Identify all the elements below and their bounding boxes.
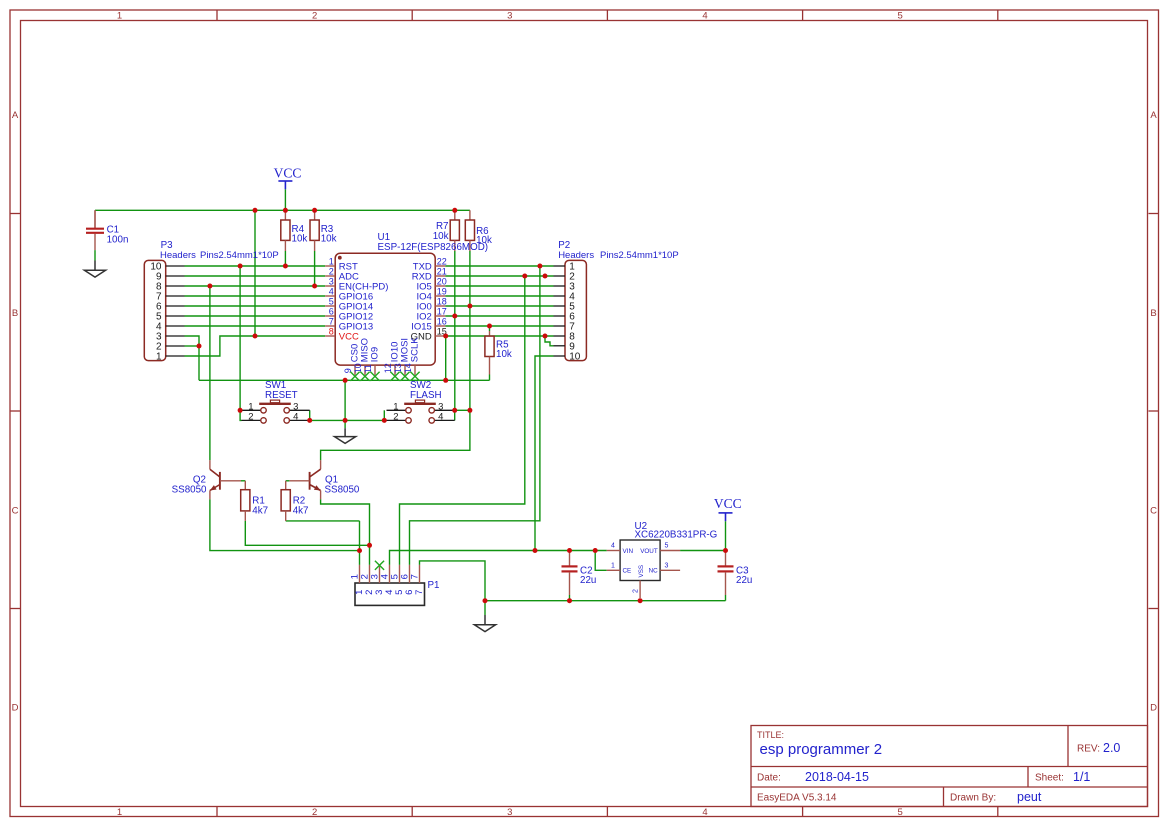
svg-text:17: 17 — [437, 307, 447, 317]
svg-text:B: B — [12, 308, 18, 319]
svg-text:10: 10 — [569, 351, 581, 362]
wire P3 pin3 segment — [185, 336, 200, 380]
svg-text:NC: NC — [649, 568, 659, 575]
wire P3 pin lead 9 — [166, 275, 185, 277]
capacitor C1 — [86, 210, 128, 250]
svg-text:4: 4 — [329, 287, 334, 297]
junction dots — [197, 208, 729, 603]
wire P2 pin lead 5 — [554, 305, 566, 307]
title block — [751, 726, 1148, 807]
wire U1 right row y=336 — [445, 335, 553, 337]
svg-text:C: C — [12, 506, 19, 517]
wire R2 bottom to P1 pin1 — [286, 520, 360, 522]
svg-text:100n: 100n — [107, 234, 129, 245]
svg-text:1: 1 — [117, 807, 122, 818]
svg-text:5: 5 — [329, 297, 334, 307]
svg-text:VSS: VSS — [638, 565, 645, 578]
svg-text:10k: 10k — [292, 234, 308, 245]
svg-text:ESP-12F(ESP8266MOD): ESP-12F(ESP8266MOD) — [378, 242, 489, 253]
VCC flag left — [274, 165, 302, 189]
svg-text:5: 5 — [898, 807, 903, 818]
wire base Q1 — [286, 480, 290, 482]
wire P3 pin lead 2 — [166, 345, 185, 347]
resistor R7 — [433, 210, 460, 251]
wire U1 right row y=286 — [445, 285, 553, 287]
wire P3 pin lead 7 — [166, 295, 185, 297]
wire P3 pin lead 4 — [166, 325, 185, 327]
wire rail to U1 VCC pin (vertical x=255) — [254, 210, 256, 336]
svg-text:6: 6 — [329, 307, 334, 317]
svg-text:C: C — [1150, 506, 1157, 517]
wire VCC stem left — [284, 189, 286, 210]
svg-text:SS8050: SS8050 — [325, 485, 360, 496]
U1 pin 19 — [435, 295, 445, 297]
wire Q1 emitter to P1 pin2 — [321, 499, 370, 565]
U1 pin 15 — [435, 335, 445, 337]
svg-text:2: 2 — [312, 807, 317, 818]
wire R7 to IO2 to SW2 — [454, 251, 456, 410]
svg-text:VOUT: VOUT — [640, 548, 658, 555]
wire R1 bottom to P1 pin2 — [245, 521, 369, 545]
wire P2 pin lead 2 — [554, 275, 566, 277]
wire P3 row y=316 — [185, 315, 326, 317]
wire P3 row y=266 — [185, 265, 326, 267]
wire P2 pin lead 3 — [554, 285, 566, 287]
wire P3 pin lead 1 — [166, 355, 185, 357]
wire R4 bottom — [284, 251, 286, 266]
wire U1 right row y=306 — [445, 305, 553, 307]
svg-text:7: 7 — [409, 574, 420, 579]
U1 pin 18 — [435, 305, 445, 307]
svg-text:1: 1 — [117, 10, 122, 21]
svg-text:D: D — [1150, 703, 1157, 714]
svg-text:10k: 10k — [433, 231, 449, 242]
U1 pin 5 — [325, 305, 335, 307]
wire C1 top — [94, 210, 96, 228]
capacitor C2 — [562, 551, 597, 596]
op-amp U1 ESP-12F(ESP8266MOD) — [325, 232, 488, 381]
wire U2 VOUT to VCC — [680, 550, 725, 552]
wire P2 pin lead 4 — [554, 295, 566, 297]
svg-text:3: 3 — [507, 10, 512, 21]
svg-text:Headers: Headers — [558, 250, 594, 261]
U1 pin 3 — [325, 285, 335, 287]
svg-text:2.0: 2.0 — [1103, 741, 1120, 755]
wire P1 pin7 to bottom gnd — [420, 561, 486, 601]
VCC flag right — [714, 496, 742, 521]
switch SW1 (RESET) — [242, 380, 310, 423]
svg-text:RESET: RESET — [265, 390, 298, 401]
svg-text:B: B — [1150, 308, 1156, 319]
svg-text:2: 2 — [312, 10, 317, 21]
svg-text:18: 18 — [437, 297, 447, 307]
svg-text:5: 5 — [665, 543, 669, 550]
wire base Q2 — [241, 480, 245, 482]
svg-text:4k7: 4k7 — [293, 505, 309, 516]
svg-text:2: 2 — [329, 267, 334, 277]
wire P3 row y=286 — [185, 285, 326, 287]
svg-text:VCC: VCC — [274, 165, 302, 180]
svg-text:2018-04-15: 2018-04-15 — [805, 770, 869, 784]
header P1 — [349, 565, 439, 606]
svg-text:1: 1 — [611, 562, 615, 569]
svg-text:8: 8 — [329, 327, 334, 337]
svg-text:2: 2 — [393, 412, 398, 423]
svg-text:3: 3 — [329, 277, 334, 287]
wire P2 pin lead 8 — [554, 335, 566, 337]
svg-text:22u: 22u — [736, 575, 752, 586]
wire R5 top to IO15 — [489, 326, 491, 331]
svg-text:21: 21 — [437, 267, 447, 277]
ground under P1 — [474, 601, 495, 632]
wire P3 pin lead 3 — [166, 335, 185, 337]
svg-text:R7: R7 — [436, 221, 449, 232]
ground under C1 — [84, 261, 105, 278]
svg-text:2: 2 — [632, 589, 639, 593]
U1 pin 1 — [325, 265, 335, 267]
wire TXD to P1 pin6 — [410, 266, 540, 565]
wire P3 row y=306 — [185, 305, 326, 307]
wire P2 pin lead 7 — [554, 325, 566, 327]
svg-text:IO9: IO9 — [370, 347, 381, 362]
svg-text:4: 4 — [702, 807, 707, 818]
U1 pin 12 (IO10) — [394, 365, 396, 375]
wire P2 pin lead 9 — [554, 345, 566, 347]
svg-text:Sheet:: Sheet: — [1035, 773, 1064, 784]
wire RST to SW1 (x=240) — [240, 266, 241, 420]
svg-text:Date:: Date: — [757, 773, 781, 784]
wire C1 bottom — [94, 250, 96, 260]
svg-text:4: 4 — [438, 412, 443, 423]
U1 pin 2 — [325, 275, 335, 277]
wire VCC top rail — [95, 209, 470, 211]
svg-text:Drawn By:: Drawn By: — [950, 793, 996, 804]
svg-text:19: 19 — [437, 287, 447, 297]
capacitor C3 — [718, 551, 753, 596]
wire P3 pin lead 8 — [166, 285, 185, 287]
wire P2 pin lead 6 — [554, 315, 566, 317]
wire gnd bus to switch row — [344, 380, 346, 420]
svg-text:1/1: 1/1 — [1073, 770, 1090, 784]
wire P1 pin stub 2 — [369, 565, 371, 583]
U2 pin 5 VOUT — [660, 550, 680, 552]
svg-text:4: 4 — [702, 10, 707, 21]
wire SW2 right bracket — [454, 410, 456, 420]
svg-text:Headers: Headers — [160, 250, 196, 261]
svg-text:7: 7 — [414, 590, 425, 595]
wire P2 pin lead 1 — [554, 265, 566, 267]
wire GND bus y=380 — [199, 379, 490, 381]
U1 pin 17 — [435, 315, 445, 317]
wire U2 CE branch — [595, 551, 607, 571]
wire P3 pin lead 10 — [166, 265, 185, 267]
resistor R6 — [465, 210, 492, 251]
svg-text:peut: peut — [1017, 790, 1042, 804]
svg-text:esp programmer 2: esp programmer 2 — [760, 741, 883, 758]
wire P2 pin9 jog to GND row — [545, 336, 554, 346]
wire U1 GND down — [445, 336, 447, 380]
svg-text:SCLK: SCLK — [410, 337, 421, 362]
svg-text:D: D — [12, 703, 19, 714]
wire SW1 right bracket — [309, 410, 311, 420]
wire P3 pin lead 5 — [166, 315, 185, 317]
wire R5 bottom to gnd bus — [489, 375, 491, 381]
no-connect X on P1 pin 3 — [375, 561, 384, 570]
wire P3 row y=276 — [185, 275, 326, 277]
wire U1 right row y=266 — [445, 265, 553, 267]
svg-text:4k7: 4k7 — [252, 505, 268, 516]
wire P1 pin stub 7 — [419, 565, 421, 583]
wire P2 pin lead 10 — [554, 355, 566, 357]
svg-text:CE: CE — [623, 568, 632, 575]
svg-text:TITLE:: TITLE: — [757, 730, 784, 740]
wire VCC stem right — [725, 521, 727, 550]
U1 pin 14 (SCLK) — [414, 365, 416, 375]
U1 pin 8 — [325, 335, 335, 337]
wire P3 row y=296 — [185, 295, 326, 297]
U1 pin 7 — [325, 325, 335, 327]
ground under switches — [335, 420, 356, 443]
U2 pin 4 VIN — [607, 550, 620, 552]
svg-text:Pins2.54mm1*10P: Pins2.54mm1*10P — [200, 250, 279, 261]
U2 pin 3 NC — [660, 569, 680, 571]
U1 pin 21 — [435, 275, 445, 277]
U1 pin 10 (MISO) — [364, 365, 366, 375]
svg-text:3: 3 — [665, 562, 669, 569]
svg-text:A: A — [1150, 110, 1157, 121]
U1 pin 22 — [435, 265, 445, 267]
wire P1 pin stub 4 — [389, 565, 391, 583]
wire P1 pin stub 1 — [359, 565, 361, 583]
svg-text:3: 3 — [507, 807, 512, 818]
header P2 — [554, 240, 679, 362]
U1 pin 11 (IO9) — [374, 365, 376, 375]
wire P3 row y=326 — [185, 325, 326, 327]
svg-text:7: 7 — [329, 317, 334, 327]
wire bottom gnd rail — [485, 600, 726, 602]
svg-text:16: 16 — [437, 317, 447, 327]
svg-text:VCC: VCC — [339, 331, 359, 342]
wire R6 to IO0 to SW2/Q1 — [321, 251, 470, 460]
U2 pin 1 CE — [607, 569, 620, 571]
wire P1 pin stub 5 — [399, 565, 401, 583]
U1 pin 20 — [435, 285, 445, 287]
resistor R5 — [485, 331, 512, 375]
header P3 — [144, 240, 278, 362]
wire U1 right row y=296 — [445, 295, 553, 297]
wire P1 pin1 vertical — [359, 521, 361, 565]
svg-text:10k: 10k — [321, 234, 337, 245]
svg-text:4: 4 — [611, 543, 615, 550]
wire P3 pin1 to VCC row — [185, 336, 326, 356]
svg-text:4: 4 — [293, 412, 298, 423]
wire SW1 to SW2 row — [310, 419, 385, 421]
wire SW2 left bracket — [383, 410, 385, 420]
svg-text:10k: 10k — [496, 349, 512, 360]
U2 pin 2 VSS — [639, 581, 641, 599]
U1 pin 13 (MOSI) — [404, 365, 406, 375]
switch SW2 (FLASH) — [387, 380, 455, 423]
svg-text:XC6220B331PR-G: XC6220B331PR-G — [635, 529, 718, 540]
wire EN to Q2 collector (x=210) — [209, 286, 211, 460]
svg-text:A: A — [12, 110, 19, 121]
svg-text:FLASH: FLASH — [410, 390, 442, 401]
svg-text:1: 1 — [156, 351, 162, 362]
svg-text:22u: 22u — [580, 575, 596, 586]
resistor R3 — [310, 210, 337, 251]
wire P1 pin stub 3 — [379, 565, 381, 583]
svg-text:Pins2.54mm1*10P: Pins2.54mm1*10P — [600, 250, 679, 261]
U1 pin 4 — [325, 295, 335, 297]
svg-text:VIN: VIN — [623, 548, 634, 555]
svg-text:P1: P1 — [428, 580, 440, 591]
U1 pin 9 (CS0) — [354, 365, 356, 375]
resistor R2 — [281, 481, 308, 521]
wire U1 right row y=316 — [445, 315, 553, 317]
wire U1 right row y=276 — [445, 275, 553, 277]
svg-text:1: 1 — [329, 257, 334, 267]
svg-text:5: 5 — [898, 10, 903, 21]
svg-text:22: 22 — [437, 257, 447, 267]
resistor R1 — [241, 481, 268, 521]
resistor R4 — [281, 210, 308, 251]
wire SW2 pin3 to vertical — [455, 409, 470, 411]
wire P1 pin stub 6 — [409, 565, 411, 583]
wire P3 pin lead 6 — [166, 305, 185, 307]
wire P3 pin2 segment — [185, 345, 200, 347]
svg-text:2: 2 — [248, 412, 253, 423]
wire R3 bottom — [314, 251, 316, 286]
svg-text:REV:: REV: — [1077, 744, 1100, 755]
wire P1 pin4 to U2 VIN — [390, 551, 607, 565]
wire Q2 emitter to GND bus — [210, 499, 360, 550]
svg-text:SS8050: SS8050 — [172, 485, 207, 496]
wire P2 pin10 to VIN bus — [535, 356, 554, 551]
U1 pin 6 — [325, 315, 335, 317]
transistor Q2 (SS8050) — [210, 460, 241, 499]
U1 pin 16 — [435, 325, 445, 327]
wire C3 bottom — [725, 595, 727, 601]
svg-text:20: 20 — [437, 277, 447, 287]
transistor Q1 (SS8050) — [289, 460, 320, 499]
regulator U2 XC6220B331PR-G — [607, 521, 718, 598]
wire U1 right row y=326 — [445, 325, 553, 327]
svg-text:VCC: VCC — [714, 496, 742, 511]
wire RXD to P1 pin5 — [400, 276, 525, 565]
svg-text:EasyEDA V5.3.14: EasyEDA V5.3.14 — [757, 793, 837, 804]
wire C2 bottom — [569, 595, 571, 601]
